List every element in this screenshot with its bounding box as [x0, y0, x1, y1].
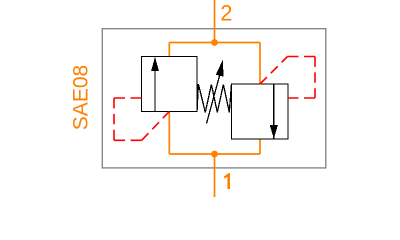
node junction top: [211, 39, 218, 46]
node junction bottom: [211, 151, 218, 158]
svg-text:SAE08: SAE08: [69, 65, 92, 130]
adjustment arrow (tilted through spring): [207, 60, 224, 124]
wire drop to right valve top: [259, 43, 261, 85]
wire rise from right valve bottom: [259, 139, 261, 154]
pilot line right top horizontal: [288, 56, 316, 58]
valve body outline (gray cartridge envelope): [102, 29, 325, 168]
valve V1 envelope (left square): [142, 57, 198, 112]
pilot line left (dashed red) horizontal into left valve: [114, 97, 142, 99]
valve V2 flow arrow (down): [270, 84, 278, 139]
wire rise from left valve bottom: [168, 112, 170, 155]
pilot line right bottom horizontal into right valve: [288, 97, 315, 99]
spring (zigzag between valves): [197, 84, 232, 112]
valve V1 flow arrow (up): [151, 57, 159, 112]
pilot line left bottom horizontal: [114, 139, 142, 141]
port 1 label: [224, 173, 230, 189]
wire port 1 vertical: [214, 154, 216, 197]
wire top horizontal: [169, 42, 260, 44]
wire drop to left valve top: [168, 43, 170, 57]
pilot line right diagonal from valve top node: [260, 57, 288, 85]
wire port 2 vertical: [214, 0, 216, 43]
pilot line left diagonal to valve bottom node: [142, 112, 170, 141]
pilot line right vertical: [314, 57, 316, 99]
svg-text:2: 2: [220, 1, 232, 26]
valve V2 envelope (right square): [232, 84, 289, 139]
wire bottom horizontal: [169, 153, 260, 155]
pilot line left vertical: [113, 98, 115, 140]
